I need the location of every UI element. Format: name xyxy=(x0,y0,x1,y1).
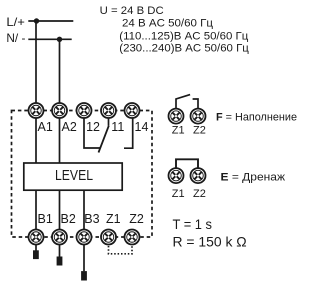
svg-text:F = Наполнение: F = Наполнение xyxy=(216,112,297,124)
svg-text:B3: B3 xyxy=(84,212,99,226)
svg-text:Z2: Z2 xyxy=(129,212,144,226)
svg-text:Z1: Z1 xyxy=(106,212,121,226)
svg-text:Z1: Z1 xyxy=(172,188,185,200)
svg-text:14: 14 xyxy=(135,120,149,134)
svg-text:L/+: L/+ xyxy=(6,15,25,29)
svg-text:A2: A2 xyxy=(62,120,77,134)
svg-text:(110...125)В AC 50/60 Гц: (110...125)В AC 50/60 Гц xyxy=(119,30,249,42)
svg-text:E = Дренаж: E = Дренаж xyxy=(221,172,286,184)
svg-text:Z2: Z2 xyxy=(193,125,206,137)
svg-text:B1: B1 xyxy=(38,212,53,226)
svg-text:LEVEL: LEVEL xyxy=(55,167,93,184)
svg-text:12: 12 xyxy=(86,120,100,134)
svg-text:B2: B2 xyxy=(61,212,76,226)
svg-text:11: 11 xyxy=(111,120,124,134)
svg-text:U = 24 В DC: U = 24 В DC xyxy=(100,5,164,17)
svg-text:Z1: Z1 xyxy=(172,125,185,137)
svg-text:R = 150 k Ω: R = 150 k Ω xyxy=(173,234,247,250)
svg-text:N/ -: N/ - xyxy=(6,31,25,45)
svg-text:Z2: Z2 xyxy=(193,188,206,200)
svg-text:(230...240)В AC 50/60 Гц: (230...240)В AC 50/60 Гц xyxy=(119,42,249,54)
svg-text:T = 1 s: T = 1 s xyxy=(173,216,213,232)
svg-text:A1: A1 xyxy=(38,120,53,134)
svg-text:24 В AC 50/60 Гц: 24 В AC 50/60 Гц xyxy=(122,17,214,29)
